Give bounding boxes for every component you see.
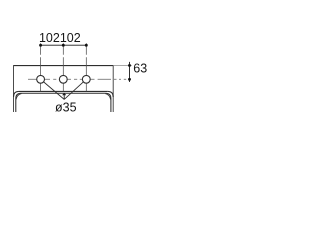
dimension line 102 102 <box>41 44 87 46</box>
tube outer bend left <box>14 91 20 97</box>
leader line to hole 3 <box>64 82 83 99</box>
dim dot left <box>39 44 42 47</box>
plate right side / tube outer right <box>112 65 114 112</box>
plate left side / tube outer left <box>13 65 15 112</box>
dim dot right <box>85 44 88 47</box>
leader stem <box>63 95 65 99</box>
tube inner bend left <box>16 93 21 112</box>
tube bend crease right <box>105 94 111 100</box>
tube top contour <box>19 90 108 92</box>
tube bottom contour <box>21 92 106 94</box>
leader line to hole 1 <box>44 82 65 100</box>
hole 2 <box>59 75 67 83</box>
centerline horizontal through holes <box>28 78 126 80</box>
extension line top right <box>114 65 132 67</box>
svg-text:102: 102 <box>39 31 60 45</box>
tube outer bend right <box>108 91 114 97</box>
dim dot 63 top <box>128 64 131 67</box>
dimension line 63 <box>129 62 131 82</box>
centerline vertical hole 1 <box>40 43 42 91</box>
svg-text:ø35: ø35 <box>55 101 77 115</box>
hole 3 <box>82 75 90 83</box>
tube bend crease left <box>16 94 22 100</box>
hole 1 <box>37 75 45 83</box>
svg-text:63: 63 <box>133 62 147 76</box>
leader arrowhead <box>62 93 66 96</box>
plate top edge <box>14 65 114 67</box>
dim dot middle <box>62 44 65 47</box>
centerline vertical hole 3 <box>85 43 87 91</box>
tube inner bend right <box>106 93 111 112</box>
centerline vertical hole 2 <box>62 43 64 91</box>
dim dot 63 bottom <box>128 78 131 81</box>
svg-text:102: 102 <box>60 31 81 45</box>
